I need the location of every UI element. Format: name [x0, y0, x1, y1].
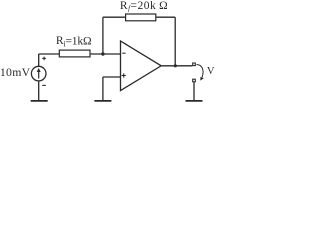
op-amp U1 triangle: [121, 41, 162, 91]
svg-text:V: V: [207, 66, 215, 77]
wire lower terminal to ground: [193, 82, 195, 100]
node B output junction dot: [174, 64, 177, 67]
wire feedback left drop: [102, 17, 104, 54]
ground (left under source): [31, 100, 48, 102]
svg-text:Rf=20k Ω: Rf=20k Ω: [120, 0, 168, 13]
op-amp non-inverting input label: [122, 73, 126, 77]
voltage source plus label: [42, 57, 46, 61]
wire R1 to op-amp inverting input: [91, 53, 121, 55]
wire feedback right drop: [174, 17, 176, 66]
voltage source V1 arrow: [37, 68, 41, 79]
wire source top lead: [38, 54, 40, 66]
wire feedback top left: [103, 16, 126, 18]
wire non-inverting drop to ground: [102, 77, 104, 100]
ground (middle): [94, 100, 111, 102]
wire source to R1: [39, 53, 59, 55]
op-amp inverting input label: [122, 52, 125, 54]
ground (right): [186, 100, 203, 102]
resistor Ri body: [59, 50, 90, 57]
voltage arrow arc: [197, 65, 204, 78]
terminal lower output square: [193, 79, 196, 82]
node A junction dot (inverting input): [101, 52, 104, 55]
svg-text:10mV: 10mV: [0, 65, 31, 79]
voltage source V1 circle: [31, 66, 46, 81]
terminal upper output square: [193, 63, 196, 66]
wire non-inverting input: [103, 76, 121, 78]
wire op-amp output: [161, 65, 192, 67]
voltage arrow head: [200, 77, 204, 81]
wire source bottom lead: [38, 81, 40, 100]
wire feedback top right: [156, 16, 175, 18]
voltage source minus label: [42, 84, 46, 86]
resistor Rf body: [126, 14, 156, 21]
svg-text:Ri=1kΩ: Ri=1kΩ: [56, 34, 92, 48]
